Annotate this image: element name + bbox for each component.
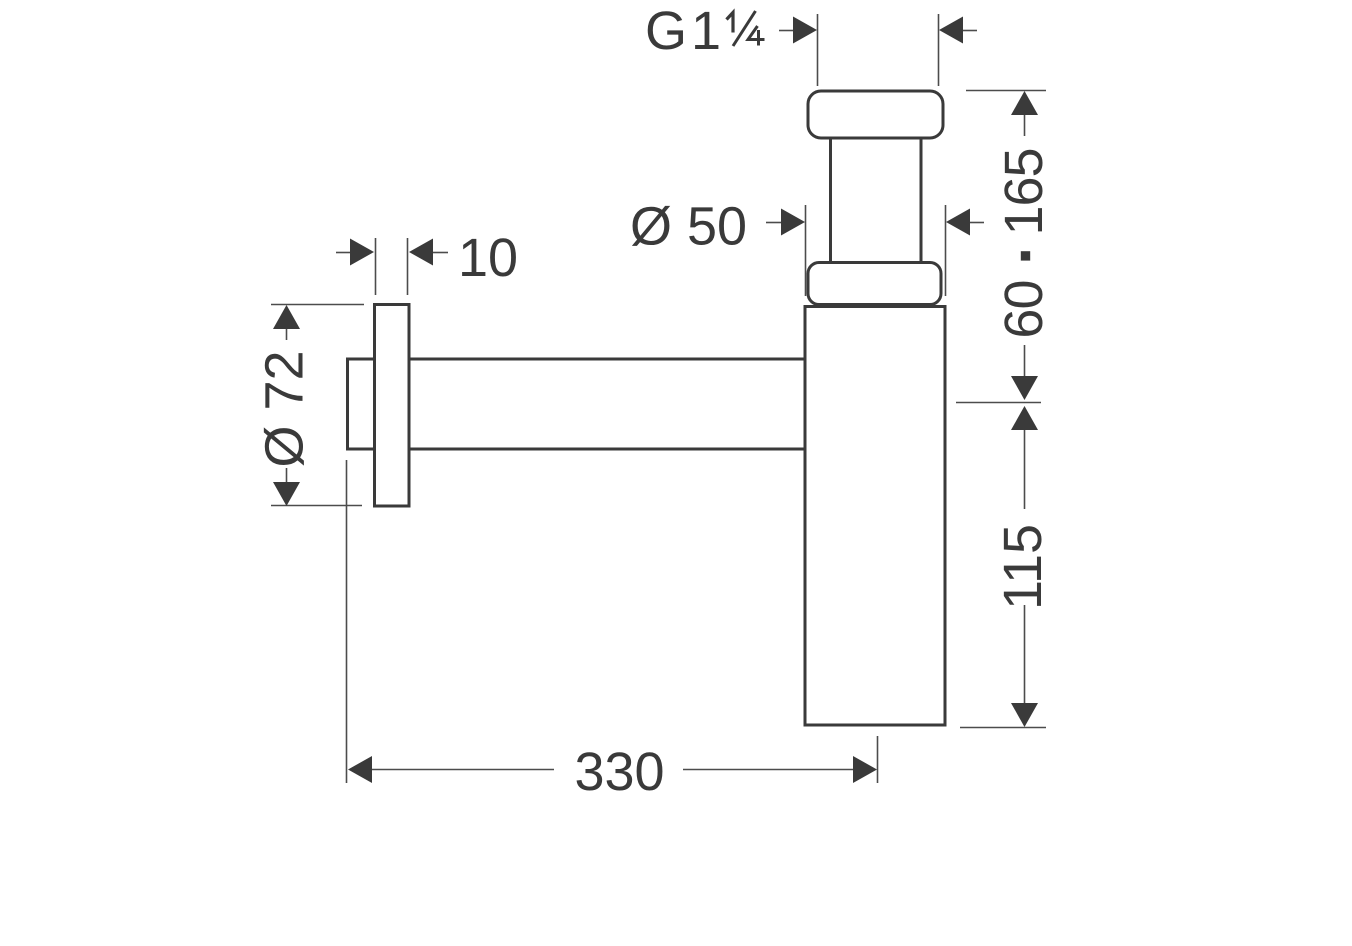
diameter 72 top arrow [273,305,300,340]
10 dimension extension lines [376,238,408,295]
10 left arrow [336,239,374,266]
330 left arrow [348,756,554,783]
115 bottom extension line [960,727,1046,729]
top nut [808,91,943,138]
lower nut [808,263,941,305]
diameter 50 extension lines [806,205,946,296]
60-165 top extension line [966,90,1046,92]
G1 1/4 left arrow [779,17,817,44]
330 right arrow [683,756,877,783]
svg-text:G1: G1 [645,1,725,61]
vertical inlet pipe [831,136,922,264]
G1 1/4 label [645,1,765,61]
svg-text:60 - 165: 60 - 165 [994,148,1054,338]
diameter 72 bottom arrow [273,468,300,506]
60-165 top arrow [1011,91,1038,136]
horizontal outlet pipe [348,359,806,449]
svg-text:10: 10 [458,228,518,288]
svg-text:Ø 50: Ø 50 [630,197,747,257]
diameter 50 left arrow [766,209,805,236]
60-165 bottom arrow [1011,345,1038,400]
diameter 50 right arrow [946,209,984,236]
trap body [805,307,945,726]
svg-text:330: 330 [574,742,664,802]
330 extension lines [347,460,878,783]
svg-text:Ø 72: Ø 72 [255,350,315,467]
G1 1/4 right arrow [939,17,977,44]
pipe centre extension line [956,402,1041,404]
wall flange [375,305,410,507]
115 top arrow [1011,406,1038,509]
G1 1/4 dimension extension lines [818,14,939,86]
svg-text:115: 115 [993,524,1053,610]
diameter 72 extension lines [271,305,364,506]
115 bottom arrow [1011,605,1038,727]
10 right arrow [409,239,448,266]
